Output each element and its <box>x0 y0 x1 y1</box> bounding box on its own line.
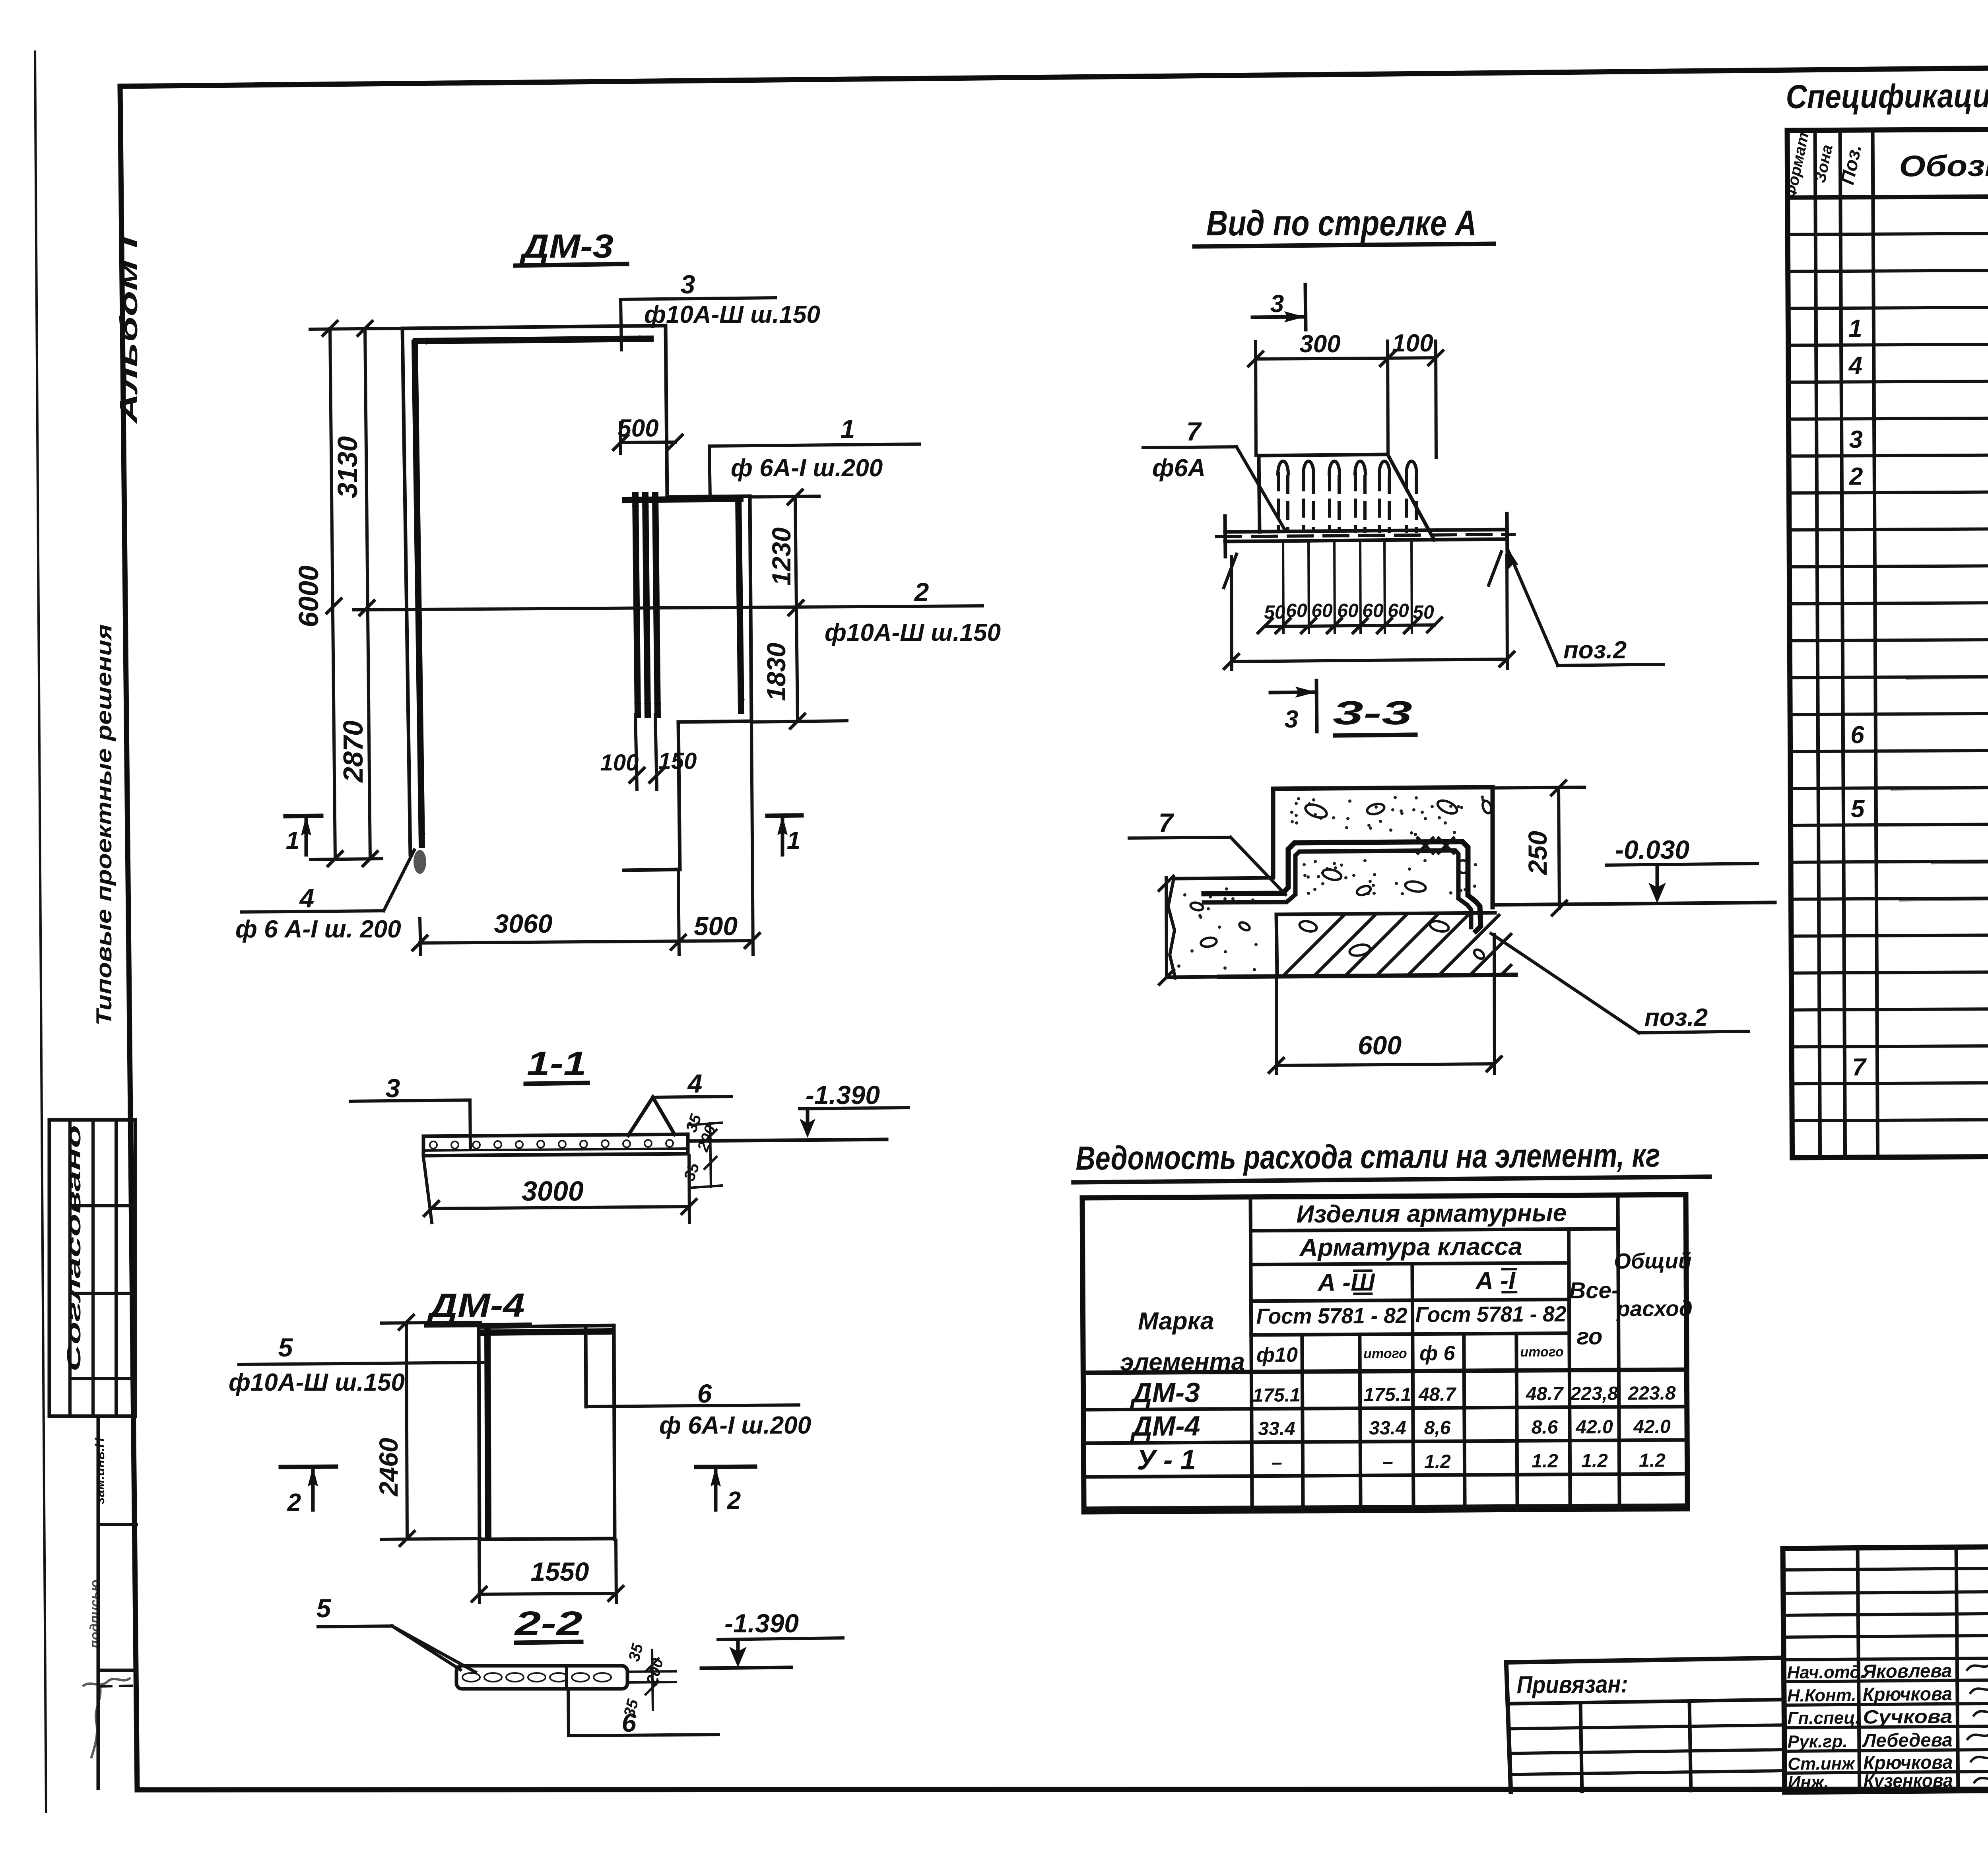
svg-text:1-1: 1-1 <box>527 1045 586 1082</box>
svg-text:зам.инв.Н: зам.инв.Н <box>92 1437 107 1504</box>
svg-text:300: 300 <box>1299 330 1340 358</box>
row 5: L=5970 <box>1848 352 1862 379</box>
dim text 6000 <box>293 565 324 627</box>
svg-text:ф 6: ф 6 <box>1419 1342 1456 1365</box>
vedomost header Obshchiy raskhod <box>1614 1248 1693 1321</box>
section title 1-1 <box>526 1045 588 1084</box>
svg-text:100: 100 <box>1392 330 1433 357</box>
svg-text:8.6: 8.6 <box>1532 1417 1558 1438</box>
svg-text:итого: итого <box>1363 1346 1407 1362</box>
spec table outer border <box>1787 126 1988 1158</box>
svg-text:Гост 5781 - 82: Гост 5781 - 82 <box>1256 1303 1408 1329</box>
hatch pattern in base slab <box>1284 915 1511 975</box>
svg-text:А -Ш: А -Ш <box>1317 1269 1375 1296</box>
section title 2-2 <box>514 1605 582 1643</box>
svg-text:–: – <box>1382 1451 1393 1473</box>
svg-text:2460: 2460 <box>374 1438 403 1497</box>
vedomost vertical lines <box>1250 1195 1619 1511</box>
svg-text:2: 2 <box>1849 463 1863 490</box>
stirrup bar 1 <box>1276 461 1290 633</box>
leader poz2 lower <box>1491 933 1749 1033</box>
svg-text:600: 600 <box>1358 1030 1402 1060</box>
svg-text:3: 3 <box>386 1073 400 1103</box>
svg-text:48.7: 48.7 <box>1418 1384 1457 1405</box>
spec table header bottom line <box>1788 194 1988 198</box>
svg-text:–: – <box>1272 1452 1282 1473</box>
svg-text:ДМ-3: ДМ-3 <box>1130 1377 1200 1408</box>
stamp outer border <box>1783 1542 1988 1792</box>
leader 7 label <box>1129 808 1285 895</box>
break mark left <box>1224 554 1237 588</box>
plate outline bottom <box>423 1154 688 1156</box>
plate band top line <box>1225 530 1507 532</box>
plate outline rounded <box>456 1666 627 1689</box>
svg-text:расход: расход <box>1616 1296 1693 1321</box>
svg-text:3-3: 3-3 <box>1333 694 1412 732</box>
svg-text:2870: 2870 <box>338 720 369 783</box>
svg-text:7: 7 <box>1852 1054 1867 1081</box>
rect outline top edge <box>479 1325 614 1327</box>
svg-text:ф10А-Ш ш.150: ф10А-Ш ш.150 <box>229 1369 405 1396</box>
dim 3000 <box>423 1155 696 1222</box>
svg-text:ф10А-Ш ш.150: ф10А-Ш ш.150 <box>825 619 1001 646</box>
vedomost header itogo right <box>1520 1345 1564 1360</box>
vertical scribble inv N podl <box>91 1688 101 1757</box>
vedomost outer border <box>1082 1195 1687 1512</box>
vedomost title <box>1073 1136 1710 1182</box>
panel outline lower step horizontal <box>678 721 751 722</box>
svg-text:-0.030: -0.030 <box>1615 835 1689 864</box>
leader 5 label <box>316 1593 476 1672</box>
vedomost header itogo left <box>1363 1346 1407 1362</box>
row 17: L=2430 <box>1851 795 1865 823</box>
svg-text:3: 3 <box>1849 426 1863 453</box>
element top outline trapezoid <box>1259 454 1434 540</box>
soglasovano box <box>49 1120 135 1416</box>
vedomost horizontal lines <box>1082 1228 1687 1508</box>
svg-text:2: 2 <box>727 1487 741 1514</box>
svg-text:Рук.гр.: Рук.гр. <box>1788 1732 1848 1752</box>
svg-text:Согласовано: Согласовано <box>64 1125 85 1372</box>
svg-text:5: 5 <box>278 1333 293 1362</box>
spec table row lines <box>1788 231 1988 1121</box>
level mark -1.390 <box>689 1080 909 1141</box>
spec header Format (vertical) <box>1781 131 1813 200</box>
base slab hatched rect <box>1276 913 1495 976</box>
svg-text:ф10: ф10 <box>1256 1343 1298 1367</box>
section title 3-3 <box>1333 694 1415 735</box>
svg-text:223,8: 223,8 <box>1570 1383 1618 1405</box>
svg-text:Нач.отд.: Нач.отд. <box>1787 1662 1866 1682</box>
panel outline step horizontal at 1250 <box>667 496 750 497</box>
panel outline top edge <box>402 326 666 328</box>
inner rebar line vertical right <box>586 1327 586 1407</box>
stamp horizontal lines left part <box>1783 1568 1988 1773</box>
svg-text:Гп.спец.: Гп.спец. <box>1787 1708 1860 1728</box>
stamp signature row 2 <box>1787 1679 1988 1706</box>
svg-text:Гост 5781 - 82: Гост 5781 - 82 <box>1415 1302 1567 1327</box>
leader 4 label bottom left <box>235 850 414 943</box>
small end dims 35 200 35 <box>620 1642 667 1719</box>
outer thin left border line <box>35 52 46 1812</box>
band left end tick <box>1225 516 1225 557</box>
panel outline right mid edge <box>750 496 751 721</box>
svg-text:500: 500 <box>694 911 738 941</box>
svg-text:60: 60 <box>1286 600 1307 621</box>
rebar right vertical bar <box>738 498 745 713</box>
svg-text:2: 2 <box>287 1489 301 1516</box>
svg-text:Арматура класса: Арматура класса <box>1299 1233 1522 1261</box>
plate outline top <box>423 1134 688 1136</box>
spec header Oboznachenie <box>1899 148 1988 183</box>
privyazan box <box>1506 1658 1785 1792</box>
bottom dim line 3060 500 <box>413 722 759 954</box>
svg-text:поз.2: поз.2 <box>1644 1004 1708 1031</box>
svg-text:1830: 1830 <box>761 642 791 701</box>
svg-text:1.2: 1.2 <box>1639 1450 1666 1471</box>
vedomost header f6 <box>1419 1342 1456 1365</box>
section mark 1-1 right <box>767 815 802 855</box>
svg-text:4: 4 <box>299 883 315 913</box>
svg-text:35: 35 <box>625 1642 646 1663</box>
plate band bottom line <box>1225 539 1507 541</box>
stirrup bar 6 <box>1404 461 1419 633</box>
dim 250 right <box>1494 781 1584 915</box>
svg-text:175.1: 175.1 <box>1363 1384 1411 1406</box>
aggregate dots <box>1177 796 1485 971</box>
svg-text:6: 6 <box>622 1708 637 1737</box>
stamp signature row 4 <box>1788 1725 1988 1752</box>
base slab bottom line <box>1169 975 1516 977</box>
svg-text:60: 60 <box>1388 600 1409 621</box>
svg-text:ф10А-Ш ш.150: ф10А-Ш ш.150 <box>644 301 820 328</box>
svg-text:4: 4 <box>687 1069 703 1098</box>
svg-text:1230: 1230 <box>767 527 796 586</box>
dim 1230 vertical <box>751 490 819 615</box>
svg-text:5: 5 <box>1851 795 1865 823</box>
main frame left edge <box>120 86 137 1790</box>
dim line 3130-2870 vertical <box>358 321 377 866</box>
vedomost header f10 <box>1256 1343 1298 1367</box>
plate right end <box>686 1134 690 1154</box>
spec table title <box>1786 74 1988 115</box>
svg-text:2: 2 <box>914 577 929 607</box>
leader 3 label <box>350 1073 470 1149</box>
svg-text:Общий: Общий <box>1614 1248 1692 1273</box>
spec header Zona (vertical) <box>1811 143 1837 184</box>
svg-text:ф 6А-I ш.200: ф 6А-I ш.200 <box>731 454 883 482</box>
svg-text:Крючкова: Крючкова <box>1863 1684 1952 1706</box>
svg-text:3130: 3130 <box>332 436 363 498</box>
svg-text:ДМ-3: ДМ-3 <box>519 227 613 265</box>
svg-text:Марка: Марка <box>1138 1307 1214 1335</box>
vertical label Tipovye proektnye resheniya <box>91 624 116 1026</box>
plate band dashed axis <box>1217 534 1514 537</box>
upper concrete block outline <box>1273 787 1493 907</box>
svg-text:итого: итого <box>1520 1345 1564 1360</box>
svg-text:60: 60 <box>1311 600 1333 621</box>
row 15: L=1520 <box>1850 721 1864 749</box>
svg-text:250: 250 <box>1523 831 1552 875</box>
svg-text:33.4: 33.4 <box>1258 1418 1295 1439</box>
rebar cluster bar b <box>642 493 651 717</box>
erased smudge lines in oboznachenie column <box>1891 676 1988 900</box>
svg-text:1: 1 <box>1848 315 1862 342</box>
leader 1 label <box>709 414 919 498</box>
leader 6 label below <box>568 1690 718 1737</box>
section mark 2 right <box>696 1467 755 1514</box>
svg-text:1: 1 <box>787 827 800 854</box>
section mark 3 lower <box>1270 681 1317 733</box>
svg-text:6000: 6000 <box>293 565 324 627</box>
dim 2460 <box>374 1315 480 1546</box>
leader 5 label <box>229 1333 487 1396</box>
svg-text:подписью: подписью <box>87 1580 103 1649</box>
svg-text:Ведомость расхода стали на эле: Ведомость расхода стали на элемент, кг <box>1076 1136 1660 1177</box>
privyazan label <box>1516 1671 1628 1699</box>
svg-text:Альбом I: Альбом I <box>115 235 143 425</box>
stamp signature row 5 <box>1788 1747 1988 1774</box>
section mark 2 left <box>281 1467 336 1516</box>
spacing dim line 50x60 <box>1258 600 1442 633</box>
dim 1830 vertical <box>753 608 847 728</box>
svg-text:ДМ-4: ДМ-4 <box>1130 1410 1200 1442</box>
lower margin cells <box>98 1416 136 1788</box>
dim 1550 <box>472 1540 623 1602</box>
svg-text:ДМ-4: ДМ-4 <box>427 1286 525 1324</box>
main frame bottom edge <box>137 1789 1988 1790</box>
vedomost header GOST left <box>1256 1303 1408 1329</box>
vedomost header Armatura klassa <box>1299 1233 1522 1261</box>
svg-text:5: 5 <box>316 1593 332 1623</box>
dim 600 bottom <box>1269 934 1501 1073</box>
svg-text:Сучкова: Сучкова <box>1863 1706 1952 1728</box>
leader 3 label <box>621 270 820 350</box>
rebar 4 left vertical bar <box>415 343 425 847</box>
extension line bottom for 6000 <box>311 859 382 860</box>
bottom left scribble <box>83 1678 137 1686</box>
svg-text:6: 6 <box>1850 721 1864 749</box>
svg-text:223.8: 223.8 <box>1627 1383 1676 1404</box>
break mark right <box>1489 552 1501 585</box>
svg-text:го: го <box>1576 1323 1602 1349</box>
vedomost header Izdeliya armaturnye <box>1296 1199 1567 1228</box>
ink blot bottom of left bar <box>414 850 426 874</box>
svg-text:А -I: А -I <box>1475 1267 1516 1295</box>
svg-text:Инж.: Инж. <box>1788 1772 1829 1792</box>
dim text 1230 <box>767 527 796 586</box>
svg-text:1550: 1550 <box>531 1557 589 1586</box>
svg-text:7: 7 <box>1186 417 1202 446</box>
svg-text:175.1: 175.1 <box>1252 1385 1300 1406</box>
dim line 6000 vertical <box>323 321 342 866</box>
plate left end <box>422 1136 425 1156</box>
svg-text:500: 500 <box>617 415 658 442</box>
embedded plate item 7 (bent) <box>1204 842 1481 931</box>
svg-text:-1.390: -1.390 <box>806 1080 880 1110</box>
vedomost data row U-1 <box>1137 1442 1666 1475</box>
stamp signature row 6 <box>1788 1768 1988 1793</box>
svg-text:3: 3 <box>1285 706 1298 733</box>
svg-text:42.0: 42.0 <box>1575 1416 1613 1438</box>
level mark -0.030 <box>1495 835 1775 905</box>
leader 7 f6A label <box>1143 417 1284 529</box>
svg-text:33.4: 33.4 <box>1369 1418 1406 1439</box>
dim left small <box>1159 876 1174 984</box>
rebar ovals inside plate <box>462 1673 611 1682</box>
svg-text:60: 60 <box>1362 600 1384 621</box>
stirrup bar 3 <box>1327 461 1342 633</box>
svg-text:3060: 3060 <box>494 909 553 938</box>
spec table column lines <box>1815 127 1988 1158</box>
stirrup bar 4 <box>1353 461 1367 633</box>
overall bottom dim line <box>1224 556 1514 669</box>
vedomost data row DM-4 <box>1130 1408 1671 1442</box>
svg-text:Все-: Все- <box>1569 1277 1619 1304</box>
svg-text:1.2: 1.2 <box>1424 1451 1451 1472</box>
svg-text:1: 1 <box>286 827 299 854</box>
svg-text:Обозначение: Обозначение <box>1899 148 1988 183</box>
svg-text:100: 100 <box>600 750 639 776</box>
svg-text:Ст.инж: Ст.инж <box>1788 1754 1856 1774</box>
rebar 3 top horizontal bar <box>414 335 653 345</box>
svg-text:ф 6 А-I ш. 200: ф 6 А-I ш. 200 <box>235 916 401 943</box>
svg-text:1.2: 1.2 <box>1532 1451 1558 1472</box>
panel outline lower step vertical <box>678 722 680 869</box>
row 4: L=990 <box>1848 315 1862 342</box>
rebar 6 horizontal thick top <box>483 1331 609 1333</box>
panel outline bottom small edge <box>624 869 680 870</box>
stamp signature row 3 <box>1787 1702 1988 1729</box>
svg-text:3000: 3000 <box>522 1176 584 1207</box>
small end dims 35 200 35 <box>681 1112 722 1188</box>
dim 300 100 <box>1248 330 1443 457</box>
svg-text:1: 1 <box>841 414 855 444</box>
panel outline left edge <box>402 328 410 855</box>
svg-text:3: 3 <box>1270 290 1284 318</box>
vertical label Album I <box>115 235 143 425</box>
svg-text:Яковлева: Яковлева <box>1862 1661 1952 1682</box>
svg-text:Вид по стрелке А: Вид по стрелке А <box>1206 204 1477 243</box>
vertical label Soglasovano <box>64 1125 85 1372</box>
svg-text:поз.2: поз.2 <box>1563 636 1627 664</box>
vedomost header GOST right <box>1415 1302 1567 1327</box>
svg-text:48.7: 48.7 <box>1526 1383 1564 1405</box>
section mark 3 upper <box>1252 285 1306 330</box>
anchor cross marks on plate right <box>1418 838 1454 853</box>
row 8: L=2430 <box>1849 463 1863 490</box>
dim text 2870 <box>338 720 369 783</box>
svg-text:1.2: 1.2 <box>1581 1450 1608 1471</box>
svg-text:Привязан:: Привязан: <box>1516 1671 1628 1699</box>
svg-text:50: 50 <box>1413 602 1434 623</box>
vertical label vzam inv N <box>92 1437 107 1504</box>
rect outline left edge <box>479 1327 480 1539</box>
view title Vid po strelke A <box>1194 204 1494 246</box>
svg-text:ф 6А-I ш.200: ф 6А-I ш.200 <box>659 1412 811 1439</box>
vedomost header A-I <box>1475 1267 1516 1295</box>
panel outline step right upper edge <box>666 326 667 497</box>
svg-text:Изделия арматурные: Изделия арматурные <box>1296 1199 1567 1228</box>
stirrup bar 2 <box>1301 461 1316 633</box>
svg-text:60: 60 <box>1337 600 1359 621</box>
extension line top for 6000 <box>310 328 404 329</box>
rebar cluster bar a <box>632 493 641 717</box>
row 7: L=3030 <box>1849 426 1863 453</box>
row 24: L=900 <box>1852 1054 1867 1081</box>
band right end tick <box>1507 514 1507 554</box>
svg-text:Спецификация на днища ДМ-3 ÷ Д: Спецификация на днища ДМ-3 ÷ ДМ-4; упор … <box>1786 74 1988 115</box>
vertical label podpis i data (smudged) <box>87 1580 103 1649</box>
leader 2 long line <box>354 577 1001 646</box>
rebar 5 vertical thick <box>487 1331 488 1535</box>
view title DM-4 <box>426 1286 530 1325</box>
rect outline bottom edge <box>480 1539 615 1539</box>
svg-text:35: 35 <box>681 1160 703 1183</box>
leader poz2 <box>1507 547 1663 666</box>
svg-text:-1.390: -1.390 <box>724 1609 799 1638</box>
vedomost header A-III <box>1317 1269 1375 1296</box>
main frame top edge <box>120 62 1988 86</box>
stamp signature row 1 <box>1787 1656 1988 1683</box>
svg-text:7: 7 <box>1159 808 1175 837</box>
dim text 1830 <box>761 642 791 701</box>
lifting loop item 4 <box>628 1097 675 1135</box>
plate right extension lines <box>567 1666 676 1689</box>
view title DM-3 <box>515 227 627 266</box>
svg-text:50: 50 <box>1264 602 1285 623</box>
dim text 3130 <box>332 436 363 498</box>
rebar step horizontal bar <box>623 495 743 504</box>
svg-text:ф6А: ф6А <box>1152 454 1206 482</box>
svg-text:2-2: 2-2 <box>514 1605 582 1642</box>
dim 500 top step <box>613 415 682 453</box>
level mark -1.390 <box>701 1609 843 1668</box>
svg-text:3: 3 <box>681 270 695 299</box>
rebar cluster bar c <box>654 495 661 717</box>
svg-text:8,6: 8,6 <box>1424 1417 1451 1438</box>
stamp vertical lines <box>1858 1543 1988 1791</box>
svg-text:6: 6 <box>697 1379 712 1408</box>
svg-text:Н.Конт.: Н.Конт. <box>1787 1686 1856 1706</box>
vedomost data row DM-3 <box>1130 1374 1676 1408</box>
left neighbour slab outline <box>1168 878 1273 978</box>
svg-text:Кузенкова: Кузенкова <box>1863 1770 1953 1792</box>
rect outline right edge <box>614 1325 615 1539</box>
rebar chain row inside plate <box>430 1140 673 1149</box>
svg-text:Лебедева: Лебедева <box>1862 1730 1953 1752</box>
svg-text:42.0: 42.0 <box>1633 1416 1671 1437</box>
leader 6 label <box>586 1379 811 1439</box>
stone outlines <box>1190 798 1493 960</box>
stirrup bar 5 <box>1377 461 1392 633</box>
vedomost header Marka elementa <box>1120 1307 1245 1376</box>
svg-text:4: 4 <box>1848 352 1862 379</box>
leader 4 label <box>653 1069 731 1098</box>
svg-text:Типовые проектные решения: Типовые проектные решения <box>91 624 116 1026</box>
dim 100 150 small <box>600 715 697 789</box>
section mark 1-1 left <box>285 816 321 855</box>
spec header Poz (vertical) <box>1837 143 1866 187</box>
vedomost header Vsego <box>1569 1277 1619 1350</box>
svg-text:элемента: элемента <box>1120 1348 1245 1376</box>
svg-text:У - 1: У - 1 <box>1137 1444 1196 1476</box>
inner thin line of plate <box>423 1149 688 1151</box>
